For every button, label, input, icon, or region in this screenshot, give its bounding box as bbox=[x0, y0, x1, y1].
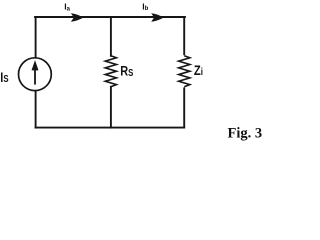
svg-text:Ib: Ib bbox=[142, 1, 148, 12]
svg-text:Zi: Zi bbox=[194, 63, 203, 78]
svg-text:Ia: Ia bbox=[64, 2, 70, 13]
svg-text:RS: RS bbox=[120, 63, 133, 79]
svg-text:IS: IS bbox=[0, 70, 8, 86]
svg-text:Fig. 3: Fig. 3 bbox=[228, 126, 263, 142]
